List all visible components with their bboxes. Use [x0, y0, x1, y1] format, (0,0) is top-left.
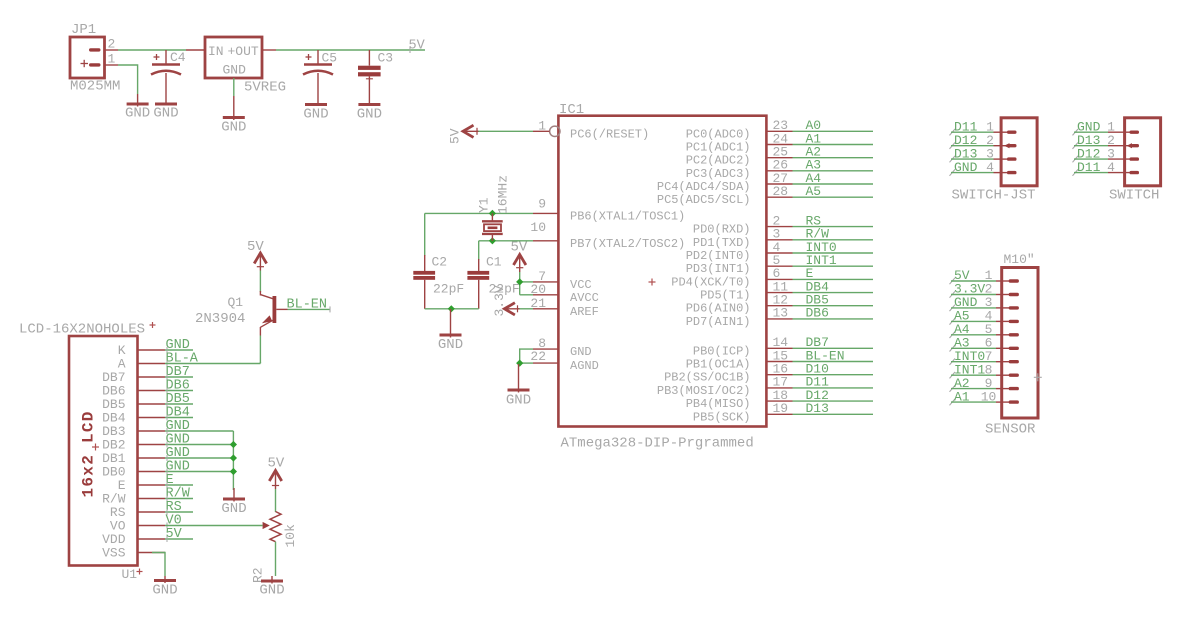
- wire pin10 net down to C1: [478, 241, 480, 260]
- junction (crystal top / pin9): [489, 210, 496, 217]
- wire XTAL1 net: [425, 212, 533, 214]
- wire Q1 emitter down to BL-A net: [259, 336, 261, 363]
- svg-text:PB5(SCK): PB5(SCK): [693, 410, 751, 424]
- svg-text:PC2(ADC2): PC2(ADC2): [686, 154, 751, 168]
- svg-text:A1: A1: [954, 389, 970, 404]
- SENSOR pin 2 / net 3.3V: [950, 282, 1019, 298]
- ground (R2): [259, 576, 284, 599]
- svg-text:4: 4: [1107, 160, 1115, 175]
- IC1 pin 25 PC2(ADC2) / net A2: [686, 145, 873, 168]
- wire JP1 pin1 to GND: [118, 65, 138, 94]
- svg-text:GND: GND: [303, 107, 328, 123]
- svg-text:PB1(OC1A): PB1(OC1A): [686, 358, 751, 372]
- junction (DB1 gnd): [230, 454, 237, 461]
- LCD pin DB3: [102, 424, 165, 439]
- svg-text:GND: GND: [259, 583, 284, 599]
- LCD pin DB0: [102, 465, 165, 480]
- LCD pin R/W: [102, 492, 165, 507]
- power symbol 5V (above R2): [268, 456, 285, 490]
- IC1 pin 11 PD5(T1) / net DB4: [700, 279, 873, 302]
- svg-text:SENSOR: SENSOR: [985, 422, 1036, 438]
- svg-text:10k: 10k: [283, 524, 298, 548]
- net label GND on LCD pin K: [165, 338, 193, 353]
- net label RS on LCD pin RS: [165, 500, 193, 515]
- SENSOR origin cross: [1034, 376, 1042, 378]
- svg-text:10: 10: [530, 220, 546, 235]
- SWITCH-JST pin 1 / net D11: [950, 119, 1017, 135]
- wire 5V to Q1 collector: [259, 271, 261, 293]
- svg-text:ATmega328-DIP-Prgrammed: ATmega328-DIP-Prgrammed: [561, 436, 754, 452]
- svg-text:C4: C4: [170, 50, 186, 65]
- svg-text:M025MM: M025MM: [70, 79, 120, 95]
- ground (LCD data lines): [221, 488, 246, 517]
- junction (DB0 gnd): [230, 468, 237, 475]
- IC1 pin 4 PD2(INT0) / net INT0: [686, 240, 873, 263]
- SENSOR pin 10 / net A1: [950, 389, 1019, 405]
- junction (GND/AGND tie): [516, 360, 523, 367]
- IC1 pin 14 PB0(ICP) / net DB7: [693, 335, 873, 358]
- connector SENSOR (M10"): [1004, 252, 1035, 267]
- net label GND on LCD pin DB0: [165, 460, 233, 475]
- svg-text:28: 28: [773, 184, 789, 199]
- IC1 pin 17 PB3(MOSI/OC2) / net D11: [657, 375, 873, 398]
- crystal Y1 16MHz: [482, 213, 503, 240]
- IC1 pin 27 PC4(ADC4/SDA) / net A4: [657, 171, 873, 194]
- svg-text:GND: GND: [570, 345, 592, 359]
- svg-text:VSS: VSS: [102, 546, 126, 561]
- transistor Q1 2N3904: [260, 291, 287, 336]
- LCD pin DB1: [102, 451, 165, 466]
- svg-text:1: 1: [108, 52, 116, 67]
- wire 5V net: 5VREG OUT to 5V label: [276, 49, 425, 51]
- SENSOR pin 6 / net A3: [950, 336, 1019, 352]
- svg-text:PD7(AIN1): PD7(AIN1): [686, 315, 751, 329]
- svg-text:GND: GND: [125, 106, 150, 122]
- svg-text:22pF: 22pF: [489, 282, 520, 297]
- ground (C5): [303, 105, 328, 123]
- net label 5V on LCD pin VDD: [165, 527, 193, 542]
- svg-text:IN: IN: [208, 44, 224, 59]
- wire AREF to 3.3V: [517, 308, 533, 310]
- junction (DB2 gnd): [230, 441, 237, 448]
- svg-text:D13: D13: [806, 401, 829, 416]
- capacitor C3: [358, 50, 393, 105]
- svg-text:AGND: AGND: [570, 359, 599, 373]
- svg-text:PB3(MOSI/OC2): PB3(MOSI/OC2): [657, 384, 751, 398]
- svg-text:22: 22: [530, 349, 546, 364]
- IC1 pin 19 PB5(SCK) / net D13: [693, 401, 873, 424]
- capacitor C1: [467, 255, 519, 309]
- SWITCH pin 1 / net GND: [1073, 119, 1140, 135]
- net label GND on LCD pin DB2: [165, 433, 233, 448]
- svg-text:AVCC: AVCC: [570, 291, 599, 305]
- svg-text:5V: 5V: [247, 239, 264, 255]
- power symbol 5V (above Q1): [247, 239, 267, 271]
- svg-text:AREF: AREF: [570, 305, 599, 319]
- 5VREG IN pin lead: [186, 49, 205, 51]
- voltage regulator 5VREG: [205, 37, 286, 96]
- wire Q1 base / net BL-EN: [288, 308, 331, 310]
- wire LCD VO to potentiometer wiper: [165, 525, 263, 527]
- net label DB6 on LCD pin DB6: [165, 379, 193, 394]
- power symbol 3.3V (left arrow at AREF): [492, 285, 520, 316]
- LCD pin DB2: [102, 438, 165, 453]
- svg-text:5V: 5V: [166, 527, 183, 542]
- net label V0 on LCD pin VO: [166, 514, 182, 529]
- JP1 pin 2 lead: [105, 49, 119, 51]
- LCD pin DB5: [102, 397, 165, 412]
- LCD pin RS: [110, 505, 165, 520]
- svg-text:PC0(ADC0): PC0(ADC0): [686, 127, 751, 141]
- LCD pin VDD: [102, 532, 165, 547]
- wire BL-A net (LCD A pin to Q1 emitter): [165, 363, 260, 365]
- wire LCD DB3-DB0 GND bus vertical: [232, 431, 234, 490]
- svg-text:JP1: JP1: [71, 22, 96, 38]
- junction (crystal bottom / pin10): [489, 237, 496, 244]
- svg-text:Y1: Y1: [477, 197, 492, 213]
- svg-text:PB2(SS/OC1B): PB2(SS/OC1B): [664, 371, 750, 385]
- svg-text:VCC: VCC: [570, 278, 592, 292]
- svg-text:4: 4: [986, 160, 994, 175]
- IC1 pin 9 PB6(XTAL1/TOSC1): [533, 197, 685, 224]
- svg-text:C1: C1: [486, 255, 502, 270]
- SENSOR pin 3 / net GND: [950, 295, 1019, 311]
- svg-text:PB0(ICP): PB0(ICP): [693, 344, 751, 358]
- svg-text:5V: 5V: [511, 240, 528, 256]
- junction (VCC/AVCC tie): [516, 278, 523, 285]
- LCD origin cross: [92, 446, 99, 448]
- LCD pin E: [118, 478, 165, 493]
- svg-text:PB7(XTAL2/TOSC2): PB7(XTAL2/TOSC2): [570, 237, 685, 251]
- wire AVCC: [520, 294, 533, 296]
- SENSOR pin 5 / net A4: [950, 322, 1019, 338]
- svg-text:U1: U1: [122, 567, 138, 582]
- svg-text:PB6(XTAL1/TOSC1): PB6(XTAL1/TOSC1): [570, 209, 685, 223]
- op-amp U1 equivalent: IC IC1 ATmega328 body: [558, 116, 766, 427]
- LCD pin K: [118, 343, 165, 358]
- wire C2/C1 bottoms to GND: [425, 308, 479, 310]
- LCD pin DB4: [102, 411, 165, 426]
- net label GND on LCD pin DB1: [165, 446, 233, 461]
- svg-text:BL-EN: BL-EN: [287, 298, 328, 313]
- wire GND pin8: [520, 349, 533, 364]
- svg-text:22pF: 22pF: [433, 282, 464, 297]
- ground (5VREG): [221, 96, 246, 136]
- SWITCH pin 3 / net D12: [1073, 146, 1140, 162]
- SWITCH-JST pin 4 / net GND: [950, 160, 1017, 176]
- power symbol 5V (above VCC): [511, 240, 528, 273]
- net label E on LCD pin E: [165, 473, 193, 488]
- IC1 pin 23 PC0(ADC0) / net A0: [686, 118, 873, 141]
- svg-text:DB6: DB6: [806, 306, 829, 321]
- wire pin9 net down to C2: [424, 213, 426, 256]
- wire VCC to 5V: [520, 281, 533, 283]
- ground (C3): [357, 105, 382, 123]
- wire AGND: [520, 362, 533, 364]
- IC1 pin 24 PC1(ADC1) / net A1: [686, 131, 873, 154]
- IC1 pin 20 AVCC: [530, 282, 598, 305]
- net label BL-A on LCD pin A: [166, 352, 199, 367]
- SENSOR pin 4 / net A5: [950, 309, 1019, 325]
- SWITCH pin 4 / net D11: [1073, 160, 1140, 176]
- junction (C1/C2 GND tie): [448, 305, 455, 312]
- IC1 pin 3 PD1(TXD) / net R/W: [693, 227, 873, 250]
- net label DB4 on LCD pin DB4: [165, 406, 193, 421]
- svg-text:GND: GND: [153, 106, 178, 122]
- LCD pin DB6: [102, 384, 165, 399]
- svg-text:PD1(TXD): PD1(TXD): [693, 236, 751, 250]
- svg-text:5V: 5V: [448, 128, 463, 144]
- IC1 pin 10 PB7(XTAL2/TOSC2): [530, 220, 685, 251]
- JP1 pin 1 lead: [105, 64, 119, 66]
- LCD pin DB7: [102, 370, 165, 385]
- IC1 pin 7 VCC: [533, 269, 592, 292]
- svg-text:GND: GND: [152, 583, 177, 599]
- svg-text:5V: 5V: [268, 456, 285, 472]
- svg-text:PD6(AIN0): PD6(AIN0): [686, 302, 751, 316]
- connector JP1: [70, 22, 116, 78]
- svg-text:PC4(ADC4/SDA): PC4(ADC4/SDA): [657, 180, 751, 194]
- IC1 pin 16 PB2(SS/OC1B) / net D10: [664, 362, 873, 385]
- IC1 pin 8 GND: [533, 336, 592, 359]
- svg-text:A5: A5: [806, 184, 822, 199]
- IC1 pin 26 PC3(ADC3) / net A3: [686, 158, 873, 181]
- svg-text:5V: 5V: [409, 39, 426, 54]
- svg-text:GND: GND: [221, 120, 246, 136]
- wire 5V to R2 top: [275, 489, 277, 512]
- LCD pin VO: [110, 519, 165, 534]
- wire 5V net: JP1 pin2 to 5VREG IN: [118, 49, 186, 51]
- ground (crystal caps): [438, 309, 463, 353]
- IC1 pin 2 PD0(RXD) / net RS: [693, 213, 873, 236]
- net label DB5 on LCD pin DB5: [165, 392, 193, 407]
- connector SWITCH body: [1125, 118, 1161, 186]
- svg-text:SWITCH-JST: SWITCH-JST: [952, 188, 1036, 204]
- svg-text:GND: GND: [357, 107, 382, 123]
- svg-text:PD4(XCK/T0): PD4(XCK/T0): [671, 275, 750, 289]
- svg-text:C3: C3: [378, 51, 394, 66]
- SENSOR pin 1 / net 5V: [950, 268, 1019, 284]
- svg-text:GND: GND: [221, 501, 246, 517]
- svg-text:19: 19: [773, 401, 789, 416]
- SENSOR pin 8 / net INT1: [950, 362, 1019, 378]
- svg-text:PC1(ADC1): PC1(ADC1): [686, 141, 751, 155]
- svg-text:PD5(T1): PD5(T1): [700, 289, 750, 303]
- svg-text:PD3(INT1): PD3(INT1): [686, 262, 751, 276]
- 5VREG OUT pin lead: [262, 49, 276, 51]
- capacitor C5: [303, 50, 337, 105]
- net label DB7 on LCD pin DB7: [165, 365, 193, 380]
- wire XTAL2 net: [479, 240, 533, 242]
- IC1 pin 12 PD6(AIN0) / net DB5: [686, 293, 873, 316]
- ground (JP1): [125, 94, 150, 122]
- svg-text:9: 9: [538, 197, 546, 212]
- capacitor C2: [413, 255, 464, 309]
- svg-text:PC6(/RESET): PC6(/RESET): [570, 127, 649, 141]
- LCD pin A: [118, 357, 165, 372]
- IC1 pin 22 AGND: [530, 349, 598, 373]
- wire R2 bottom to GND: [275, 542, 277, 576]
- ground (LCD VSS): [152, 576, 177, 599]
- IC1 pin 6 PD4(XCK/T0) / net E: [671, 266, 873, 289]
- ground (C4): [153, 104, 178, 122]
- IC1 pin 28 PC5(ADC5/SCL) / net A5: [657, 184, 873, 207]
- svg-text:GND: GND: [223, 63, 247, 78]
- IC1 origin cross: [649, 281, 656, 283]
- svg-text:M10": M10": [1004, 252, 1035, 267]
- svg-text:PD0(RXD): PD0(RXD): [693, 223, 751, 237]
- svg-text:C5: C5: [322, 51, 338, 66]
- svg-text:Q1: Q1: [228, 295, 244, 310]
- svg-text:+OUT: +OUT: [228, 44, 259, 59]
- 5VREG GND pin wire: [233, 78, 235, 96]
- svg-text:IC1: IC1: [559, 102, 584, 118]
- svg-text:GND: GND: [954, 160, 978, 175]
- power symbol 5V (left arrow, at pin 1): [448, 125, 479, 144]
- connector SWITCH-JST body: [1001, 118, 1037, 186]
- net label R/W on LCD pin R/W: [165, 487, 193, 502]
- svg-text:10: 10: [981, 389, 997, 404]
- LCD U1 body: [69, 336, 138, 566]
- SENSOR pin 7 / net INT0: [950, 349, 1019, 365]
- svg-text:PC3(ADC3): PC3(ADC3): [686, 167, 751, 181]
- svg-text:2N3904: 2N3904: [195, 311, 245, 327]
- wire pin1 to 5V supply: [477, 130, 533, 132]
- ground (IC1 pins 8/22): [506, 364, 531, 409]
- svg-text:C2: C2: [432, 255, 448, 270]
- capacitor C4: [151, 50, 186, 104]
- SWITCH-JST pin 3 / net D13: [950, 146, 1017, 162]
- IC1 pin 18 PB4(MISO) / net D12: [686, 388, 873, 411]
- svg-text:GND: GND: [506, 393, 531, 409]
- svg-text:13: 13: [773, 306, 789, 321]
- svg-text:SWITCH: SWITCH: [1109, 188, 1159, 204]
- LCD pin VSS: [102, 546, 165, 561]
- svg-text:5VREG: 5VREG: [244, 80, 286, 96]
- IC1 pin 1 PC6(/RESET) with reset bubble: [533, 118, 649, 141]
- svg-text:16x2 LCD: 16x2 LCD: [80, 410, 98, 497]
- svg-text:PC5(ADC5/SCL): PC5(ADC5/SCL): [657, 193, 751, 207]
- SENSOR pin 9 / net A2: [950, 376, 1019, 392]
- IC1 pin 13 PD7(AIN1) / net DB6: [686, 306, 873, 329]
- svg-text:D11: D11: [1077, 160, 1101, 175]
- IC1 pin 21 AREF: [530, 296, 598, 319]
- svg-text:PD2(INT0): PD2(INT0): [686, 249, 751, 263]
- net label GND on LCD pin DB3: [165, 419, 233, 434]
- IC1 pin 5 PD3(INT1) / net INT1: [686, 253, 873, 276]
- svg-text:PB4(MISO): PB4(MISO): [686, 397, 751, 411]
- svg-text:16MHz: 16MHz: [496, 175, 511, 214]
- svg-text:GND: GND: [438, 337, 463, 353]
- wire LCD VSS to GND: [152, 553, 165, 577]
- SWITCH-JST pin 2 / net D12: [950, 133, 1017, 149]
- SWITCH pin 2 / net D13: [1073, 133, 1140, 149]
- svg-text:2: 2: [108, 37, 116, 52]
- IC1 pin 15 PB1(OC1A) / net BL-EN: [686, 348, 873, 371]
- resistor R2 10k (potentiometer): [263, 512, 281, 542]
